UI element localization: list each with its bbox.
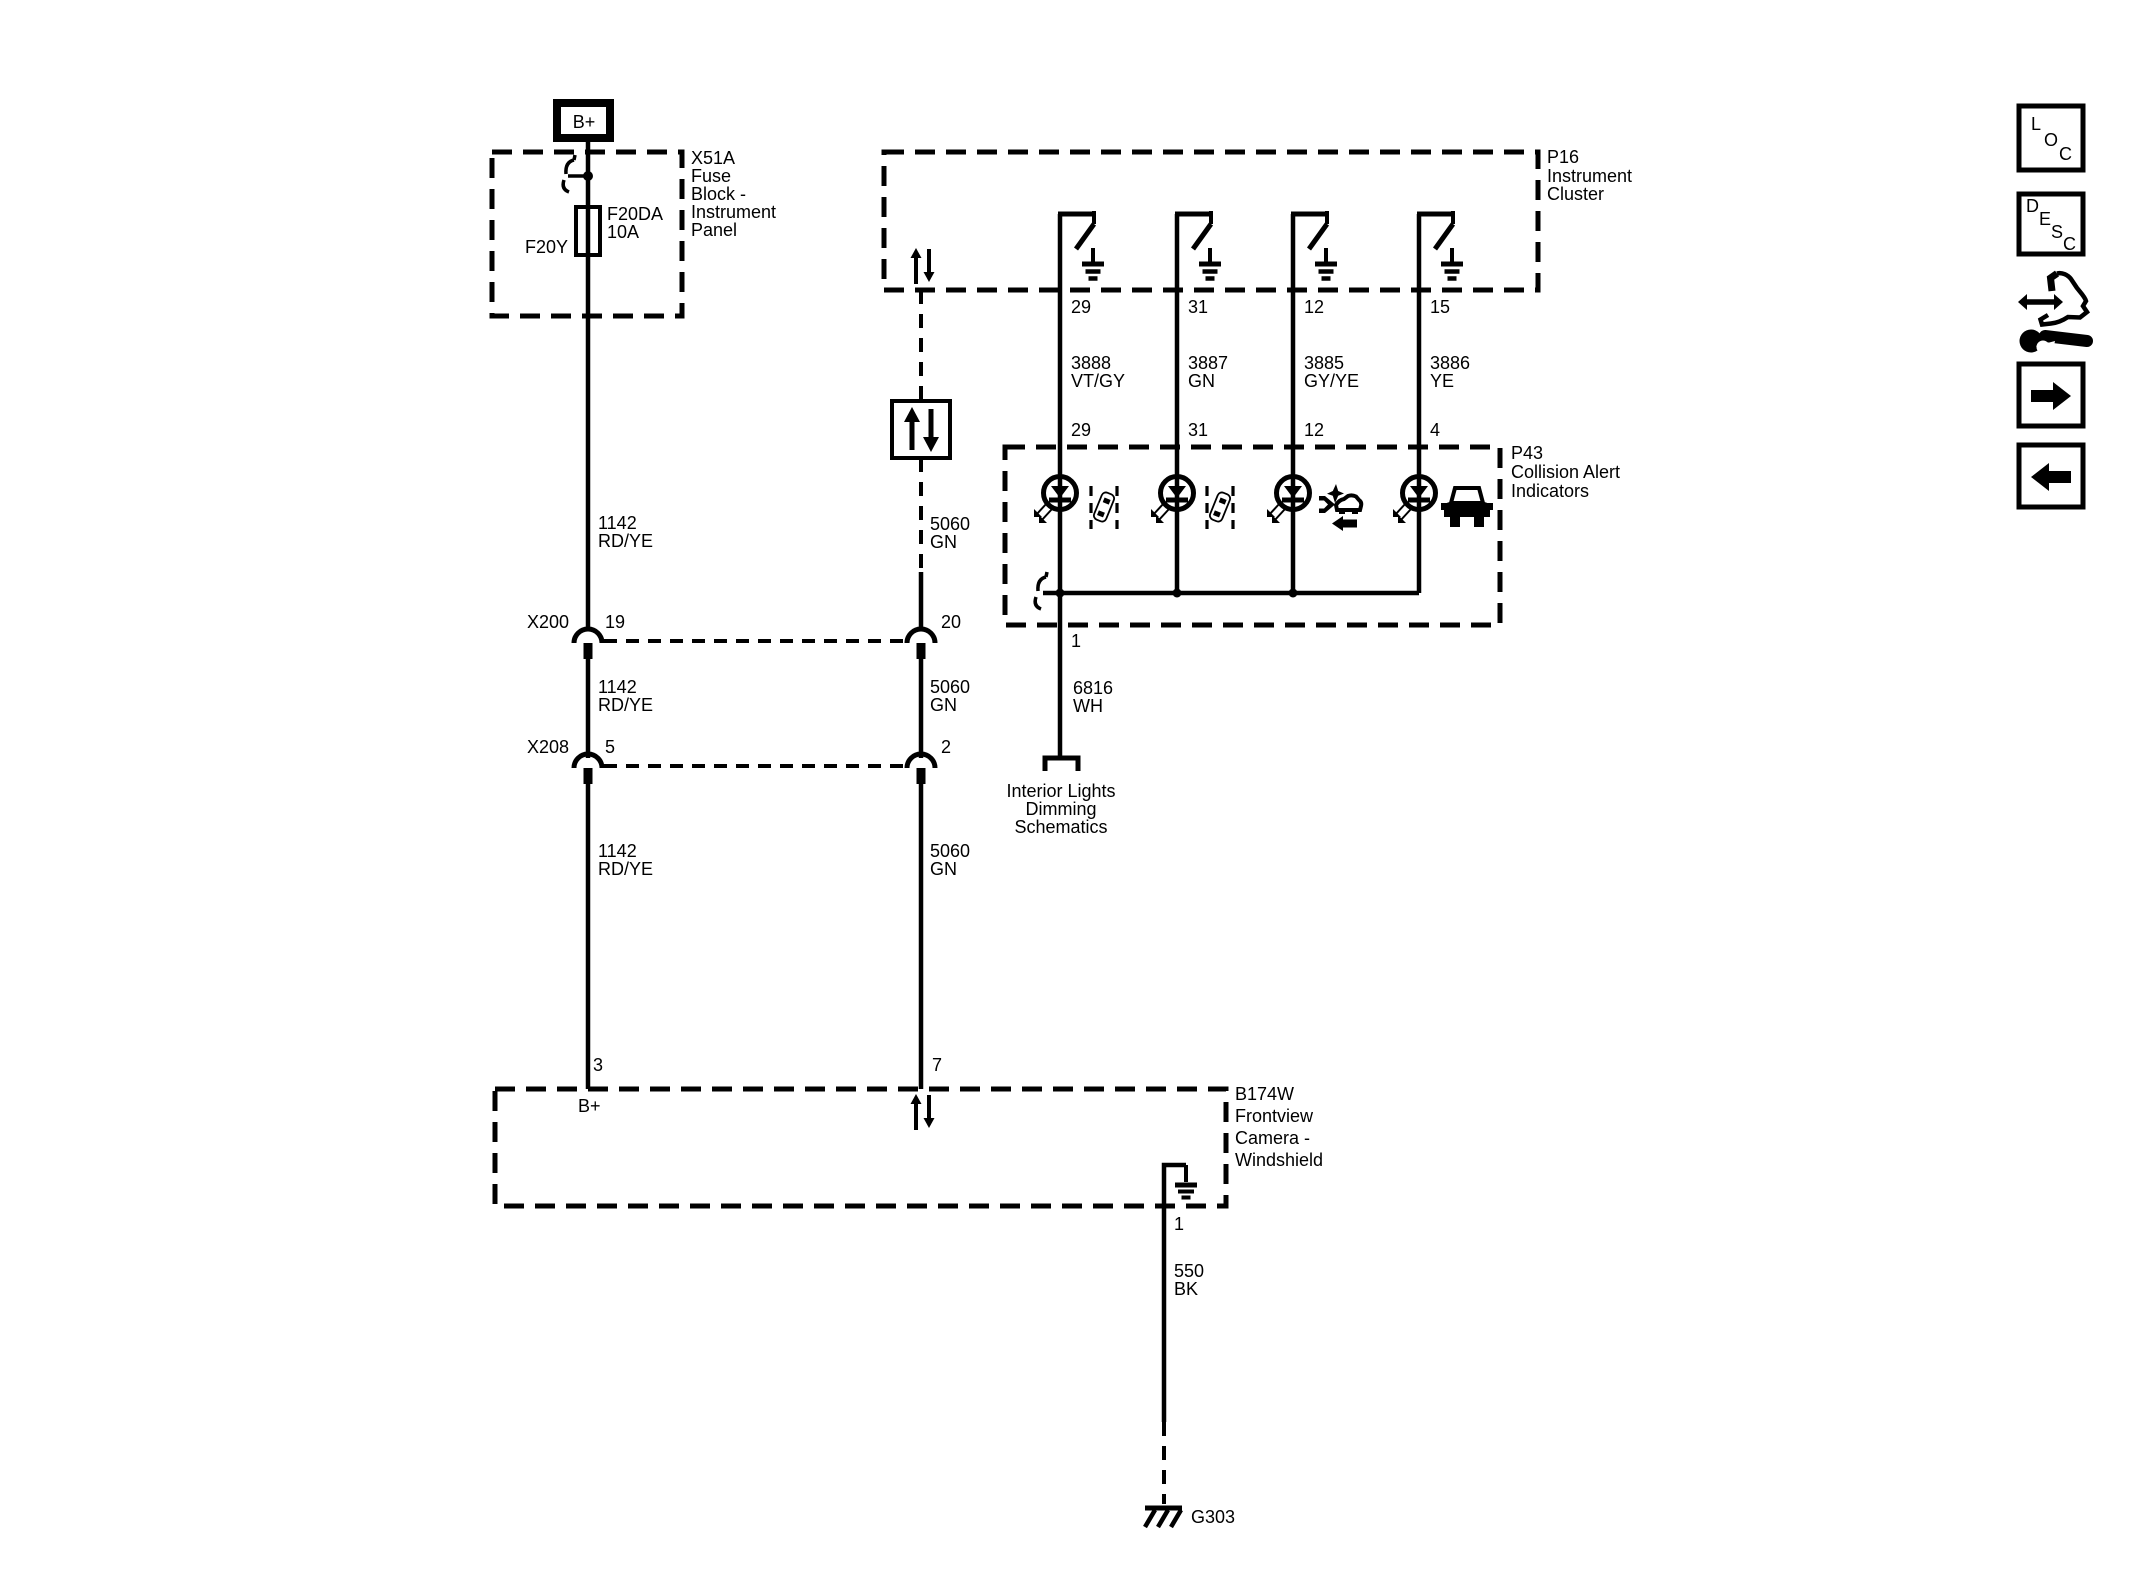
lane departure icon 2 — [1207, 486, 1233, 529]
forward collision icon — [1319, 484, 1361, 531]
wire label 3886 YE — [1430, 353, 1470, 391]
switch to ground pin 31 — [1175, 211, 1221, 279]
svg-text:5060: 5060 — [930, 677, 970, 697]
svg-text:YE: YE — [1430, 371, 1454, 391]
nav icon wiring repair — [2018, 273, 2087, 359]
P16 instrument cluster box — [884, 152, 1538, 290]
wire label 550 BK — [1174, 1261, 1204, 1299]
junction LED3 bus — [1289, 589, 1298, 598]
svg-text:E: E — [2039, 209, 2051, 229]
svg-text:P43: P43 — [1511, 443, 1543, 463]
wire label 5060 GN (upper) — [930, 514, 970, 552]
svg-text:15: 15 — [1430, 297, 1450, 317]
svg-text:550: 550 — [1174, 1261, 1204, 1281]
cluster wire 3 — [1291, 214, 1296, 593]
svg-text:B+: B+ — [578, 1096, 601, 1116]
svg-text:5060: 5060 — [930, 841, 970, 861]
svg-text:Camera -: Camera - — [1235, 1128, 1310, 1148]
label X51A Fuse Block - Instrument Panel — [691, 148, 776, 240]
svg-text:7: 7 — [932, 1055, 942, 1075]
svg-text:C: C — [2063, 234, 2076, 254]
svg-text:5: 5 — [605, 737, 615, 757]
svg-text:O: O — [2044, 130, 2058, 150]
svg-text:3: 3 — [593, 1055, 603, 1075]
serial data arrows in B174W — [911, 1094, 935, 1130]
svg-text:Cluster: Cluster — [1547, 184, 1604, 204]
svg-text:B174W: B174W — [1235, 1084, 1294, 1104]
svg-text:X200: X200 — [527, 612, 569, 632]
svg-text:GN: GN — [1188, 371, 1215, 391]
fuse block X51A box — [492, 152, 682, 316]
clip symbol at P43 — [1035, 572, 1047, 609]
svg-text:31: 31 — [1188, 297, 1208, 317]
svg-text:GN: GN — [930, 695, 957, 715]
svg-text:F20Y: F20Y — [525, 237, 568, 257]
svg-text:Windshield: Windshield — [1235, 1150, 1323, 1170]
svg-text:Indicators: Indicators — [1511, 481, 1589, 501]
wire label 3888 VT/GY — [1071, 353, 1125, 391]
svg-text:RD/YE: RD/YE — [598, 695, 653, 715]
svg-text:31: 31 — [1188, 420, 1208, 440]
svg-text:29: 29 — [1071, 297, 1091, 317]
svg-text:3887: 3887 — [1188, 353, 1228, 373]
svg-text:B+: B+ — [573, 112, 596, 132]
switch to ground pin 29 — [1058, 211, 1104, 279]
wire B+ to X200 (1142 feed) — [586, 142, 591, 630]
LED indicator 4 — [1393, 477, 1436, 524]
svg-text:1142: 1142 — [598, 841, 637, 861]
switch to ground pin 12 — [1291, 211, 1337, 279]
wire label 3885 GY/YE — [1304, 353, 1359, 391]
wire label 5060 GN (lower) — [930, 841, 970, 879]
svg-text:20: 20 — [941, 612, 961, 632]
junction node in fuse block — [583, 171, 593, 181]
svg-text:12: 12 — [1304, 297, 1324, 317]
wire X208 to B174W left — [586, 784, 591, 1089]
svg-text:C: C — [2059, 144, 2072, 164]
label P43 Collision Alert Indicators — [1511, 443, 1620, 501]
wire label 5060 GN (middle) — [930, 677, 970, 715]
vehicle ahead icon — [1441, 488, 1493, 527]
wire X200 to X208 middle — [919, 659, 924, 758]
label Interior Lights Dimming Schematics — [1006, 781, 1115, 837]
nav button next — [2019, 364, 2083, 426]
svg-text:Frontview: Frontview — [1235, 1106, 1314, 1126]
svg-text:X51A: X51A — [691, 148, 735, 168]
dashed serial data wire upper — [919, 290, 923, 401]
junction LED1 bus — [1056, 589, 1065, 598]
svg-text:12: 12 — [1304, 420, 1324, 440]
svg-text:P16: P16 — [1547, 147, 1579, 167]
svg-text:Instrument: Instrument — [1547, 166, 1632, 186]
dashed ground wire — [1162, 1422, 1166, 1504]
indicator bus wire — [1043, 591, 1419, 596]
svg-text:VT/GY: VT/GY — [1071, 371, 1125, 391]
connector X200 pins 19-20 — [527, 612, 961, 659]
B174W frontview camera box — [495, 1089, 1226, 1206]
svg-text:GY/YE: GY/YE — [1304, 371, 1359, 391]
nav button back — [2019, 445, 2083, 507]
ground wire 550 — [1162, 1206, 1167, 1422]
svg-text:2: 2 — [941, 737, 951, 757]
svg-text:RD/YE: RD/YE — [598, 531, 653, 551]
connector X208 pins 5-2 — [527, 737, 951, 784]
svg-text:S: S — [2051, 222, 2063, 242]
wire X208 to B174W middle — [919, 784, 924, 1089]
svg-text:5060: 5060 — [930, 514, 970, 534]
wire X200 to X208 left — [586, 659, 591, 758]
nav button DESC — [2019, 194, 2083, 254]
svg-text:RD/YE: RD/YE — [598, 859, 653, 879]
svg-text:3886: 3886 — [1430, 353, 1470, 373]
wire 5060 to X200 pin 20 — [919, 572, 924, 630]
svg-text:3888: 3888 — [1071, 353, 1111, 373]
svg-text:Schematics: Schematics — [1014, 817, 1107, 837]
svg-text:F20DA: F20DA — [607, 204, 663, 224]
wire label 3887 GN — [1188, 353, 1228, 391]
dashed serial data wire lower — [919, 458, 923, 572]
svg-text:D: D — [2026, 196, 2039, 216]
ground G303 — [1145, 1508, 1182, 1527]
svg-text:Panel: Panel — [691, 220, 737, 240]
power terminal B+ — [557, 103, 610, 138]
svg-text:Block -: Block - — [691, 184, 746, 204]
svg-text:BK: BK — [1174, 1279, 1198, 1299]
junction LED2 bus — [1173, 589, 1182, 598]
svg-text:X208: X208 — [527, 737, 569, 757]
off-page connector to dimming schematics — [1045, 758, 1078, 771]
cluster wire 2 — [1175, 214, 1180, 593]
fuse F20Y F20DA 10A — [525, 204, 663, 257]
label B174W Frontview Camera - Windshield — [1235, 1084, 1323, 1170]
wire label 6816 WH — [1073, 678, 1113, 716]
nav button LOC — [2019, 106, 2083, 170]
internal ground of camera — [1164, 1165, 1197, 1206]
svg-text:1: 1 — [1174, 1214, 1184, 1234]
wire label 1142 RD/YE (upper) — [598, 513, 653, 551]
wire label 1142 RD/YE (middle) — [598, 677, 653, 715]
svg-text:3885: 3885 — [1304, 353, 1344, 373]
label P16 Instrument Cluster — [1547, 147, 1632, 204]
svg-text:1: 1 — [1071, 631, 1081, 651]
svg-text:19: 19 — [605, 612, 625, 632]
svg-text:Dimming: Dimming — [1025, 799, 1096, 819]
svg-text:1142: 1142 — [598, 513, 637, 533]
svg-text:GN: GN — [930, 532, 957, 552]
P43 collision alert indicators box — [1005, 447, 1500, 625]
switch to ground pin 15 — [1417, 211, 1463, 279]
wire P43 pin1 — [1058, 593, 1063, 757]
cluster wire 4 — [1417, 214, 1422, 593]
svg-text:Fuse: Fuse — [691, 166, 731, 186]
data link connector boxed arrows — [892, 401, 950, 458]
wire label 1142 RD/YE (lower) — [598, 841, 653, 879]
svg-text:29: 29 — [1071, 420, 1091, 440]
svg-text:10A: 10A — [607, 222, 639, 242]
svg-text:WH: WH — [1073, 696, 1103, 716]
LED indicator 3 — [1267, 477, 1310, 524]
clip symbol at fuse block — [563, 155, 586, 192]
serial data arrows in P16 — [911, 248, 935, 284]
svg-text:GN: GN — [930, 859, 957, 879]
svg-text:G303: G303 — [1191, 1507, 1235, 1527]
cluster wire 1 — [1058, 214, 1063, 593]
svg-text:4: 4 — [1430, 420, 1440, 440]
svg-text:6816: 6816 — [1073, 678, 1113, 698]
svg-text:Interior Lights: Interior Lights — [1006, 781, 1115, 801]
lane departure icon 1 — [1091, 486, 1117, 529]
LED indicator 1 — [1034, 477, 1077, 524]
LED indicator 2 — [1151, 477, 1194, 524]
svg-text:Collision Alert: Collision Alert — [1511, 462, 1620, 482]
svg-text:1142: 1142 — [598, 677, 637, 697]
svg-text:Instrument: Instrument — [691, 202, 776, 222]
svg-text:L: L — [2031, 114, 2041, 134]
